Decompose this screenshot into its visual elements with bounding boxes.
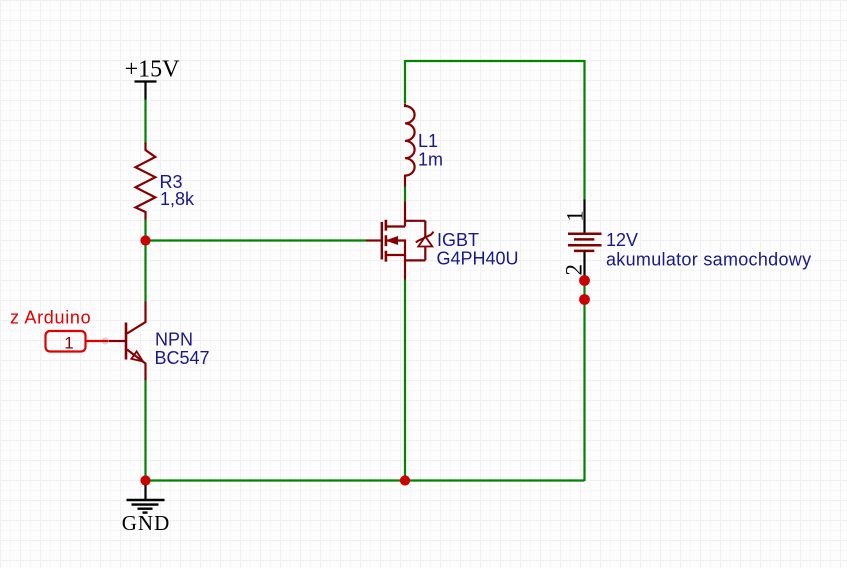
channel segments bbox=[385, 220, 388, 262]
svg-text:2: 2 bbox=[562, 264, 587, 276]
wire node A to Q1 collector bbox=[144, 241, 146, 303]
source pin bbox=[404, 255, 406, 280]
svg-text:G4PH40U: G4PH40U bbox=[437, 249, 519, 269]
svg-text:NPN: NPN bbox=[155, 330, 193, 350]
svg-text:1: 1 bbox=[563, 210, 588, 222]
base bar bbox=[125, 323, 128, 360]
drain pin bbox=[386, 202, 405, 227]
wire bottom rail bbox=[146, 479, 585, 481]
ground junction bbox=[140, 475, 150, 485]
IGBT U1 (MOSFET w/ body diode) bbox=[366, 202, 434, 280]
gate pin bbox=[366, 239, 381, 241]
transistor Q1 NPN BC547 bbox=[108, 302, 146, 381]
source tap with arrow bbox=[386, 241, 405, 256]
wire +15V to R3 bbox=[144, 99, 146, 144]
plates bbox=[568, 232, 602, 235]
wire node A to IGBT gate bbox=[146, 239, 367, 241]
svg-text:1,8k: 1,8k bbox=[160, 189, 195, 209]
junction battery pin2 bbox=[579, 275, 590, 286]
svg-text:z Arduino: z Arduino bbox=[10, 308, 91, 328]
node A junction bbox=[140, 235, 150, 245]
wire Q1 emitter to ground rail bbox=[144, 380, 146, 482]
wire top-left vertical to L1 bbox=[404, 60, 406, 104]
svg-text:IGBT: IGBT bbox=[437, 230, 479, 250]
resistor R3 bbox=[136, 143, 156, 220]
source to diode bottom bbox=[405, 259, 425, 261]
base pin bbox=[108, 340, 125, 342]
wire R3 to node A bbox=[144, 220, 146, 242]
wire battery to bottom rail bbox=[583, 275, 585, 481]
svg-text:GND: GND bbox=[122, 511, 171, 535]
power symbol +15V bbox=[125, 57, 181, 100]
battery BT1 bbox=[562, 200, 602, 277]
emitter bbox=[127, 350, 146, 381]
svg-text:12V: 12V bbox=[606, 230, 638, 250]
junction below battery bbox=[579, 294, 590, 305]
svg-text:1: 1 bbox=[64, 334, 73, 353]
wire L1 to IGBT collector bbox=[404, 187, 406, 202]
svg-text:akumulator samochdowy: akumulator samochdowy bbox=[606, 250, 811, 270]
svg-text:L1: L1 bbox=[418, 131, 438, 151]
drain to diode top bbox=[405, 220, 425, 222]
wire top rail bbox=[405, 60, 585, 62]
emitter arrow bbox=[131, 351, 143, 361]
wire IGBT emitter to bottom rail bbox=[404, 279, 406, 481]
collector bbox=[127, 302, 146, 334]
inductor L1 bbox=[405, 104, 415, 187]
pin 1 bbox=[583, 200, 585, 234]
ground symbol GND bbox=[122, 485, 171, 535]
svg-text:+15V: +15V bbox=[125, 57, 181, 83]
gate bar bbox=[381, 222, 383, 260]
pin 2 bbox=[583, 251, 585, 276]
connector box 1 bbox=[46, 331, 86, 353]
body diode bbox=[424, 221, 426, 261]
gray pin end dot bbox=[101, 337, 108, 344]
junction IGBT source / bottom rail bbox=[400, 475, 410, 485]
wire label to base (red) bbox=[86, 340, 109, 342]
svg-text:BC547: BC547 bbox=[155, 348, 210, 368]
svg-text:1m: 1m bbox=[418, 150, 443, 170]
wire top-right vertical to battery bbox=[583, 60, 585, 200]
